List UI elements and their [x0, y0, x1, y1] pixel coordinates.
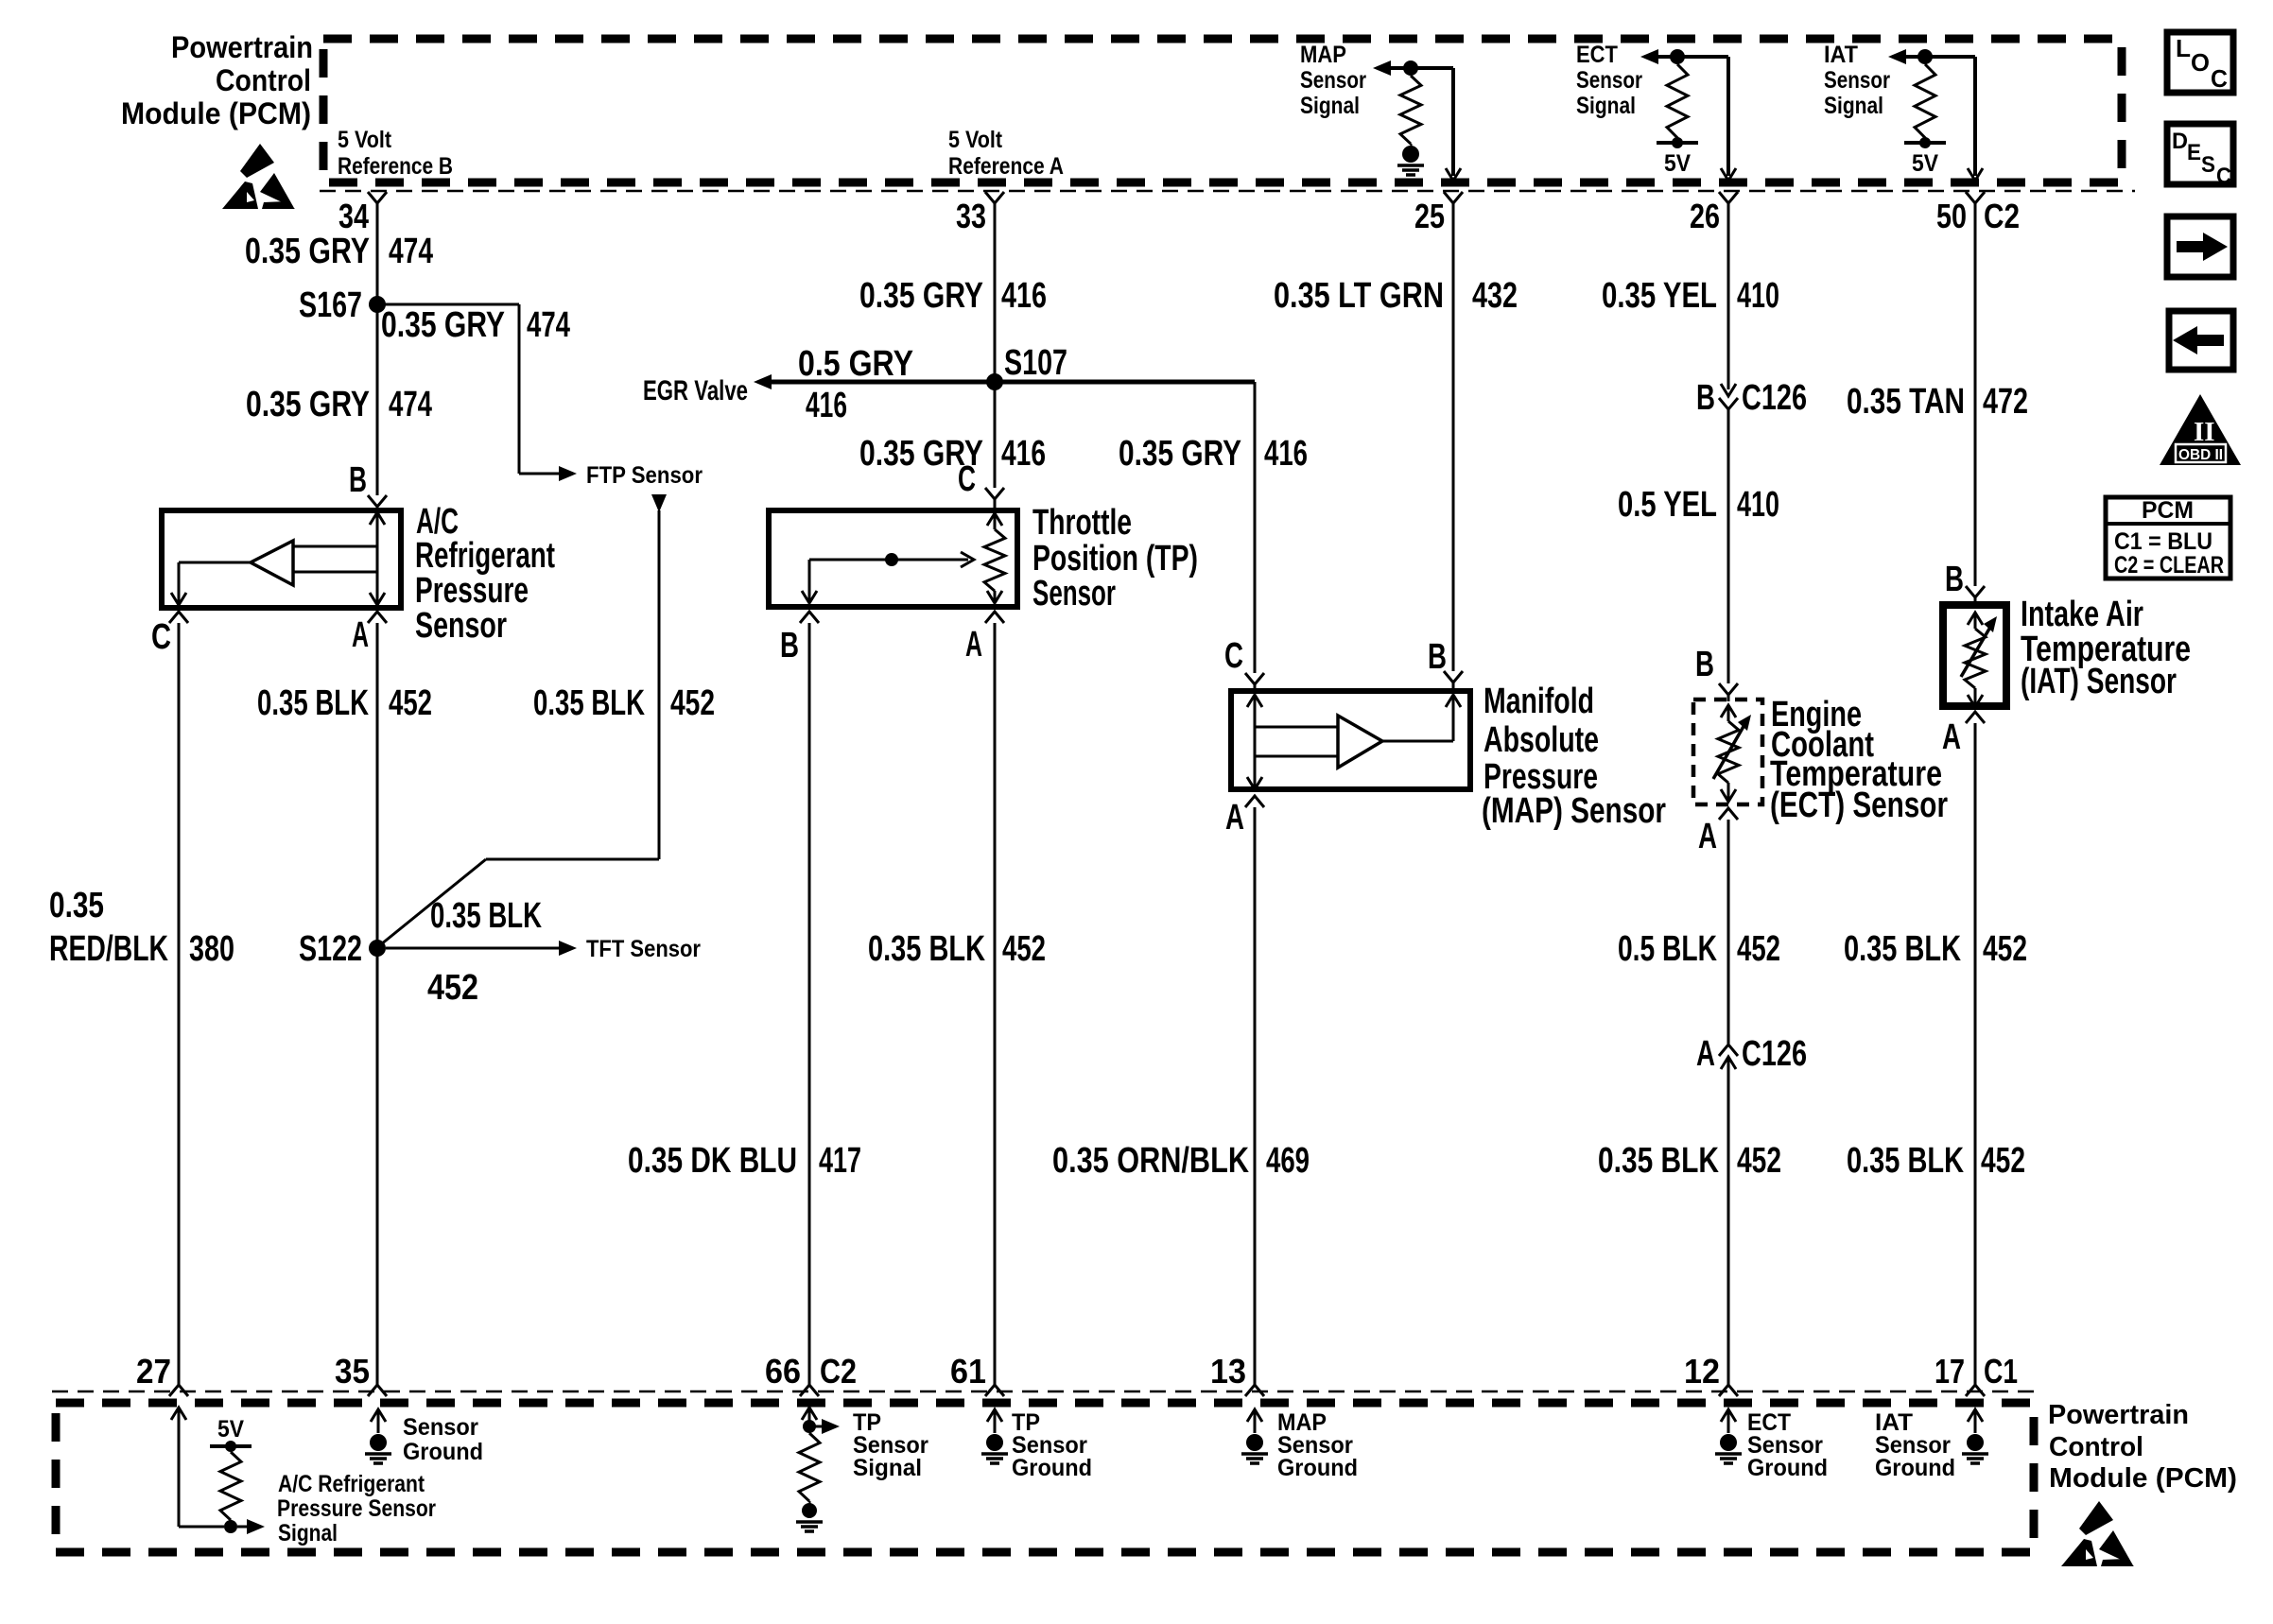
svg-text:Reference B: Reference B: [338, 153, 453, 180]
MAP Sensor Signal label (inside PCM): [1300, 42, 1366, 119]
op-amp U1 (A/C sensor amplifier): [251, 541, 293, 585]
svg-text:IAT: IAT: [1824, 42, 1858, 68]
TP sensor ground at pin 61: [981, 1409, 1092, 1481]
pin 66 (PCM), connector C2: [800, 1385, 819, 1396]
svg-text:C: C: [2211, 64, 2228, 93]
svg-text:A: A: [1942, 717, 1961, 757]
svg-text:Powertrain: Powertrain: [2048, 1400, 2189, 1430]
label: Powertrain Control Module (PCM) top-left: [121, 30, 313, 130]
svg-text:A: A: [1225, 798, 1244, 838]
svg-text:66: 66: [765, 1352, 801, 1391]
wire: ECT sensor signal line to pin 26: [1640, 49, 1658, 64]
pin A of A/C sensor: [352, 612, 387, 655]
label: 0.35 BLK 452 (ECT ground wire): [1598, 1141, 1781, 1181]
ECT Sensor Signal label (inside PCM): [1576, 42, 1642, 119]
svg-text:C: C: [151, 617, 171, 657]
svg-text:416: 416: [1001, 434, 1046, 474]
svg-text:34: 34: [338, 197, 369, 235]
svg-text:II: II: [2194, 417, 2215, 447]
svg-text:474: 474: [389, 385, 432, 424]
label: Intake Air Temperature (IAT) Sensor: [2021, 595, 2191, 701]
label: Throttle Position (TP) Sensor: [1032, 503, 1198, 613]
wire: MAP sensor signal line to pin 25: [1373, 60, 1391, 76]
svg-text:(ECT) Sensor: (ECT) Sensor: [1770, 786, 1948, 825]
label: 0.35 GRY 416 (lower left): [859, 434, 1046, 474]
svg-text:Control: Control: [2049, 1432, 2143, 1462]
svg-text:B: B: [349, 460, 367, 500]
resistor: IAT pull-up inside PCM: [1915, 64, 1935, 138]
svg-text:61: 61: [950, 1352, 986, 1391]
pin 34 (PCM): [368, 192, 387, 203]
pin 12 (PCM): [1719, 1385, 1738, 1396]
svg-text:0.35 ORN/BLK: 0.35 ORN/BLK: [1052, 1141, 1249, 1181]
svg-text:B: B: [1695, 645, 1714, 684]
svg-text:Sensor: Sensor: [415, 606, 507, 646]
svg-text:472: 472: [1983, 382, 2028, 422]
svg-text:Signal: Signal: [1576, 93, 1636, 119]
svg-text:0.35 GRY: 0.35 GRY: [1119, 434, 1241, 474]
Throttle Position Sensor box: [769, 510, 1017, 607]
svg-text:474: 474: [527, 305, 570, 345]
label: 0.35 GRY 474 (upper): [245, 232, 433, 271]
node S107 splice: [986, 373, 1003, 390]
svg-text:Refrigerant: Refrigerant: [415, 536, 555, 576]
svg-text:Module (PCM): Module (PCM): [121, 96, 311, 130]
svg-text:ECT: ECT: [1576, 42, 1618, 68]
ESD-sensitivity symbol top-left: [222, 144, 295, 209]
svg-text:S: S: [2201, 152, 2215, 178]
svg-text:469: 469: [1266, 1141, 1310, 1181]
svg-text:5 Volt: 5 Volt: [948, 127, 1003, 153]
svg-text:Sensor: Sensor: [1032, 574, 1116, 613]
op-amp U2 (MAP sensor amplifier): [1338, 716, 1382, 768]
label: 0.35 DK BLU 417: [628, 1141, 861, 1181]
wire: S107 branch to MAP sensor C (0.35 GRY 416): [995, 380, 1255, 385]
svg-text:B: B: [1945, 560, 1964, 599]
connector C126 terminal A: [1696, 1034, 1807, 1074]
svg-text:452: 452: [1002, 929, 1046, 969]
svg-text:PCM: PCM: [2142, 497, 2194, 524]
Manifold Absolute Pressure Sensor box: [1231, 691, 1470, 789]
pin C of TP sensor: [958, 459, 1004, 510]
label: 0.35 ORN/BLK 469: [1052, 1141, 1310, 1181]
node S167 splice: [369, 296, 386, 313]
svg-text:35: 35: [335, 1352, 370, 1391]
svg-text:B: B: [780, 626, 799, 665]
wire: 0.35 ORN/BLK 469 from MAP sensor A to pin 13: [1254, 807, 1257, 1386]
pin 61 (PCM): [985, 1385, 1004, 1396]
svg-text:5V: 5V: [1664, 150, 1691, 177]
icon: forward arrow box: [2167, 216, 2233, 277]
svg-text:A: A: [352, 615, 369, 655]
pin B of MAP sensor: [1428, 637, 1463, 694]
ESD-sensitivity symbol bottom-right: [2061, 1501, 2134, 1566]
svg-text:417: 417: [819, 1141, 861, 1181]
Sensor ground at pin 35: [365, 1409, 483, 1465]
svg-text:A/C Refrigerant: A/C Refrigerant: [278, 1471, 425, 1497]
svg-text:416: 416: [1001, 276, 1047, 316]
wire: 0.5 BLK 452 from ECT sensor A to connector C126 A: [1727, 820, 1730, 1044]
connector boundary thin dashed line (bottom): [52, 1391, 2038, 1393]
svg-text:0.35 GRY: 0.35 GRY: [859, 276, 983, 316]
svg-text:474: 474: [389, 232, 433, 271]
svg-text:Signal: Signal: [1300, 93, 1360, 119]
svg-text:C126: C126: [1742, 1034, 1807, 1074]
svg-text:C: C: [1224, 636, 1243, 676]
svg-text:Module (PCM): Module (PCM): [2049, 1463, 2237, 1494]
svg-text:C2: C2: [820, 1352, 857, 1391]
svg-text:452: 452: [1737, 1141, 1781, 1181]
label: Engine Coolant Temperature (ECT) Sensor: [1770, 695, 1948, 825]
wire: 0.35 GRY 474 from pin 34 to A/C sensor pin B: [376, 203, 379, 495]
svg-text:A: A: [965, 625, 982, 665]
wire: 0.35 BLK 452 from TP sensor A to pin 61: [994, 623, 997, 1386]
svg-text:0.35: 0.35: [49, 886, 104, 925]
resistor: A/C pressure signal pull-up: [220, 1452, 241, 1520]
wire: IAT sensor signal line to pin 50: [1888, 49, 1906, 64]
svg-text:S167: S167: [299, 285, 362, 325]
label: 0.35 GRY 474 (branch): [381, 305, 570, 345]
pin 35 (PCM): [368, 1385, 387, 1396]
wire: 0.35 TAN 472 from pin 50 to IAT sensor B: [1974, 203, 1977, 586]
pin 25 (PCM): [1444, 192, 1463, 203]
svg-text:0.35 BLK: 0.35 BLK: [868, 929, 985, 969]
ground: TP signal pull-down ground: [802, 1503, 817, 1518]
svg-text:452: 452: [427, 968, 478, 1008]
label: 0.35 BLK 452 (FTP ground wire): [533, 683, 715, 723]
svg-text:Ground: Ground: [403, 1439, 483, 1465]
pin A of TP sensor: [965, 612, 1004, 665]
label: 0.35 GRY 416 (MAP branch): [1119, 434, 1308, 474]
svg-text:Sensor: Sensor: [1300, 67, 1366, 94]
wire: 0.35 YEL 410 from pin 26 to connector C126 B: [1727, 203, 1730, 389]
svg-text:Control: Control: [216, 63, 311, 97]
wire: 0.35 RED/BLK 380 from A/C sensor C to pin 27: [178, 623, 181, 1386]
svg-text:MAP: MAP: [1300, 42, 1346, 68]
pin 13 (PCM): [1245, 1385, 1264, 1396]
svg-text:S107: S107: [1004, 343, 1067, 383]
wire: FTP sensor ground drop (0.35 BLK 452): [651, 494, 667, 512]
ground: MAP pull-down ground: [1402, 146, 1419, 163]
svg-text:D: D: [2172, 129, 2188, 154]
svg-text:Ground: Ground: [1277, 1455, 1358, 1481]
svg-text:Position (TP): Position (TP): [1032, 539, 1198, 579]
svg-text:Signal: Signal: [853, 1455, 922, 1481]
svg-text:Pressure: Pressure: [415, 571, 529, 611]
label: 0.35 BLK / 452 (TFT branch): [427, 896, 542, 1008]
wire: S167 branch to FTP sensor (0.35 GRY 474): [377, 303, 519, 306]
resistor: ECT pull-up inside PCM: [1667, 64, 1688, 138]
svg-text:452: 452: [1737, 929, 1780, 969]
pin 33 (PCM): [985, 192, 1004, 203]
pin A of ECT sensor: [1698, 808, 1738, 856]
label: 0.35 BLK 452 (IAT, lower): [1847, 1141, 2025, 1181]
svg-text:0.35 BLK: 0.35 BLK: [1844, 929, 1961, 969]
svg-text:Signal: Signal: [1824, 93, 1883, 119]
svg-text:12: 12: [1684, 1352, 1720, 1391]
svg-text:0.35 BLK: 0.35 BLK: [1598, 1141, 1719, 1181]
svg-text:13: 13: [1210, 1352, 1246, 1391]
svg-text:B: B: [1696, 378, 1715, 418]
legend: PCM connector colors: [2106, 497, 2230, 579]
Intake Air Temperature Sensor box: [1943, 605, 2006, 706]
label: 0.35 GRY 416 (upper): [859, 276, 1047, 316]
node S122 splice: [369, 940, 386, 957]
A/C sensor internal circuit: [171, 512, 385, 605]
svg-text:EGR Valve: EGR Valve: [643, 375, 748, 406]
label: 0.35 BLK 452 (TP ground wire): [868, 929, 1046, 969]
svg-text:C2: C2: [1984, 197, 2020, 235]
icon: back arrow box: [2169, 311, 2233, 370]
5V supply for ECT pull-up: [1657, 141, 1698, 145]
A/C Refrigerant Pressure Sensor box: [162, 510, 401, 608]
svg-text:0.35 GRY: 0.35 GRY: [381, 305, 505, 345]
svg-text:452: 452: [1983, 929, 2027, 969]
TP wiper arm: [809, 559, 968, 561]
svg-text:0.35 BLK: 0.35 BLK: [430, 896, 542, 936]
svg-text:L: L: [2176, 34, 2191, 62]
wire: 0.5 YEL 410 from C126 to ECT sensor B: [1727, 409, 1730, 683]
svg-text:Throttle: Throttle: [1032, 503, 1132, 543]
svg-text:Pressure Sensor: Pressure Sensor: [277, 1495, 436, 1522]
svg-text:380: 380: [189, 929, 234, 969]
svg-text:TFT Sensor: TFT Sensor: [586, 936, 701, 962]
svg-text:432: 432: [1472, 276, 1518, 316]
svg-text:0.5 GRY: 0.5 GRY: [798, 344, 913, 384]
wire: 0.35 BLK 452 from A/C sensor A to pin 35: [376, 623, 379, 1386]
svg-text:50: 50: [1936, 197, 1967, 235]
label: 0.35 GRY 474 (lower): [246, 385, 432, 424]
svg-text:Ground: Ground: [1747, 1455, 1828, 1481]
svg-text:452: 452: [670, 683, 715, 723]
svg-text:0.35 BLK: 0.35 BLK: [533, 683, 645, 723]
svg-text:(MAP) Sensor: (MAP) Sensor: [1482, 791, 1666, 831]
A/C refrigerant pressure sensor signal circuit inside PCM: [171, 1408, 436, 1546]
svg-text:26: 26: [1690, 197, 1720, 235]
pin B of ECT sensor: [1695, 645, 1738, 701]
label: Manifold Absolute Pressure (MAP) Sensor: [1482, 682, 1666, 831]
label: 0.35 TAN 472: [1847, 382, 2028, 422]
net: 5 Volt Reference B label: [338, 127, 453, 180]
label: Powertrain Control Module (PCM) bottom-right: [2048, 1400, 2237, 1494]
pin B of TP sensor: [780, 612, 819, 665]
label: A/C Refrigerant Pressure Sensor: [415, 502, 555, 646]
pin A of MAP sensor: [1225, 796, 1264, 838]
svg-text:A: A: [1698, 817, 1717, 856]
svg-text:0.35 LT GRN: 0.35 LT GRN: [1274, 276, 1444, 316]
svg-text:OBD II: OBD II: [2178, 447, 2223, 463]
wire: 0.5 GRY 416 to EGR valve: [754, 374, 772, 389]
ECT sensor ground at pin 12: [1715, 1409, 1828, 1481]
node: junction on ECT signal line: [1670, 49, 1685, 64]
wire: 0.35 DK BLU 417 from TP sensor B to pin 66: [808, 623, 811, 1386]
pin C of MAP sensor: [1224, 636, 1264, 694]
PCM module top dashed box: [323, 39, 2122, 182]
icon: OBD II triangle: [2160, 394, 2241, 465]
ECT thermistor: [1713, 705, 1751, 802]
svg-text:452: 452: [1981, 1141, 2025, 1181]
wire: 0.35 BLK 452 from C126 to pin 12: [1727, 1057, 1730, 1386]
node: junction on IAT signal line: [1917, 49, 1933, 64]
svg-text:Manifold: Manifold: [1484, 682, 1594, 721]
svg-text:0.35 YEL: 0.35 YEL: [1602, 276, 1717, 316]
svg-text:C126: C126: [1742, 378, 1807, 418]
svg-text:RED/BLK: RED/BLK: [49, 929, 168, 969]
IAT Sensor Signal label (inside PCM): [1824, 42, 1890, 119]
pin A of IAT sensor: [1942, 712, 1985, 757]
svg-text:Reference A: Reference A: [948, 153, 1064, 180]
svg-text:25: 25: [1414, 197, 1445, 235]
svg-text:5 Volt: 5 Volt: [338, 127, 392, 153]
wire: S122 to TFT sensor (0.35 BLK 452): [386, 947, 560, 950]
resistor: MAP pull-down inside PCM: [1400, 76, 1421, 144]
label: 0.35 BLK 452 (A/C ground wire): [257, 683, 432, 723]
svg-text:Sensor: Sensor: [1824, 67, 1890, 94]
resistor: TP signal pull-down: [799, 1433, 820, 1501]
svg-text:Signal: Signal: [278, 1520, 338, 1546]
svg-text:Absolute: Absolute: [1484, 720, 1599, 760]
svg-text:Intake Air: Intake Air: [2021, 595, 2143, 634]
svg-text:FTP Sensor: FTP Sensor: [586, 462, 703, 489]
label: 0.5 GRY / 416 (EGR branch): [798, 344, 913, 425]
MAP sensor internal circuit: [1247, 695, 1461, 789]
PCM module bottom dashed box: [56, 1403, 2034, 1552]
svg-text:C2 = CLEAR: C2 = CLEAR: [2114, 552, 2224, 579]
svg-text:E: E: [2187, 140, 2201, 165]
svg-text:C: C: [958, 459, 976, 499]
svg-text:C1: C1: [1984, 1352, 2018, 1391]
svg-text:452: 452: [389, 683, 432, 723]
svg-text:Sensor: Sensor: [403, 1414, 478, 1441]
icon: DESC box: [2167, 124, 2233, 189]
pin B of A/C refrigerant pressure sensor: [349, 460, 387, 507]
svg-text:27: 27: [136, 1352, 171, 1391]
pin 50 (PCM), connector C2: [1966, 192, 1985, 203]
pin B of IAT sensor: [1945, 560, 1985, 607]
Engine Coolant Temperature Sensor dashed box: [1693, 700, 1762, 804]
5V supply for IAT pull-up: [1904, 141, 1946, 145]
svg-text:Ground: Ground: [1875, 1455, 1955, 1481]
wire: 0.35 LT GRN 432 from pin 25 to MAP sensor B: [1452, 203, 1455, 671]
svg-text:Ground: Ground: [1012, 1455, 1092, 1481]
pin 26 (PCM): [1719, 192, 1738, 203]
connector boundary thin dashed line (top, connector C2): [320, 190, 2135, 193]
svg-text:0.35 GRY: 0.35 GRY: [246, 385, 370, 424]
svg-text:C1 = BLU: C1 = BLU: [2114, 528, 2212, 555]
wire: 0.35 GRY 416 from pin 33 to TP sensor C: [994, 203, 997, 488]
IAT sensor ground at pin 17: [1875, 1409, 1988, 1481]
label: 0.5 BLK 452: [1618, 929, 1780, 969]
svg-text:A: A: [1696, 1034, 1715, 1074]
pin 17 (PCM), connector C1: [1966, 1385, 1985, 1396]
svg-text:0.5 BLK: 0.5 BLK: [1618, 929, 1717, 969]
TP sensor signal circuit at pin 66: [796, 1408, 928, 1531]
label: 0.35 LT GRN 432: [1274, 276, 1518, 316]
label: 0.35 BLK 452 (IAT, upper): [1844, 929, 2027, 969]
svg-text:B: B: [1428, 637, 1447, 677]
wire: 0.35 BLK 452 from IAT sensor A to pin 17: [1974, 723, 1977, 1386]
svg-text:0.5 YEL: 0.5 YEL: [1618, 485, 1717, 525]
svg-text:(IAT) Sensor: (IAT) Sensor: [2021, 662, 2177, 701]
label: 0.35 YEL 410: [1602, 276, 1779, 316]
svg-text:410: 410: [1737, 276, 1779, 316]
svg-text:0.35 BLK: 0.35 BLK: [257, 683, 369, 723]
svg-text:0.35 GRY: 0.35 GRY: [245, 232, 370, 271]
label: 0.5 YEL 410: [1618, 485, 1779, 525]
svg-text:0.35 BLK: 0.35 BLK: [1847, 1141, 1964, 1181]
MAP sensor ground at pin 13: [1241, 1409, 1358, 1481]
svg-text:0.35 TAN: 0.35 TAN: [1847, 382, 1965, 422]
svg-text:C: C: [2216, 164, 2231, 189]
icon: LOC box: [2167, 32, 2233, 93]
TP sensor internal potentiometer: [802, 513, 1005, 603]
svg-text:410: 410: [1737, 485, 1779, 525]
svg-text:Sensor: Sensor: [1576, 67, 1642, 94]
svg-text:33: 33: [956, 197, 986, 235]
connector C126 terminal B: [1696, 378, 1807, 418]
net: 5 Volt Reference A label: [948, 127, 1064, 180]
svg-text:5V: 5V: [1912, 150, 1938, 177]
svg-text:O: O: [2191, 48, 2210, 77]
IAT thermistor: [1961, 613, 1997, 707]
svg-text:Powertrain: Powertrain: [171, 30, 313, 64]
svg-text:416: 416: [1264, 434, 1308, 474]
svg-text:S122: S122: [299, 929, 362, 969]
pin 27 (PCM): [169, 1385, 188, 1396]
pin C of A/C sensor: [151, 612, 188, 657]
node: junction on MAP signal line: [1403, 60, 1418, 76]
svg-text:17: 17: [1935, 1352, 1965, 1391]
label: 0.35 RED/BLK 380: [49, 886, 234, 969]
svg-text:416: 416: [806, 386, 847, 425]
svg-text:0.35 DK BLU: 0.35 DK BLU: [628, 1141, 797, 1181]
svg-text:5V: 5V: [217, 1416, 244, 1443]
